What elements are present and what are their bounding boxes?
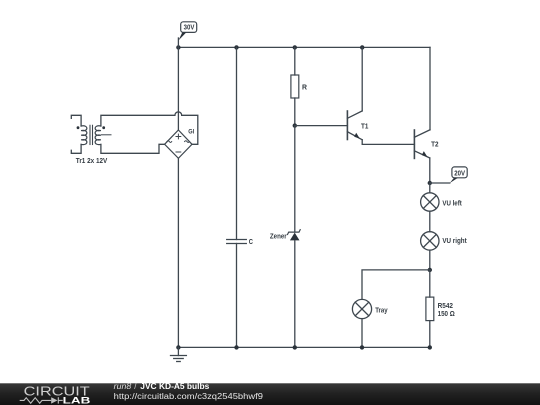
AC tilde left bbox=[167, 141, 172, 143]
wire secondary bottom to bridge AC left bbox=[101, 144, 165, 153]
core bbox=[89, 125, 91, 144]
bridge rectifier Gl bbox=[165, 128, 195, 158]
svg-text:150 Ω: 150 Ω bbox=[438, 311, 456, 318]
svg-text:20V: 20V bbox=[454, 170, 465, 177]
svg-text:T2: T2 bbox=[431, 141, 438, 148]
svg-text:Gl: Gl bbox=[188, 128, 194, 135]
svg-text:R542: R542 bbox=[438, 303, 453, 310]
wire between VU lamps bbox=[429, 211, 431, 232]
wire secondary top to bridge AC right bbox=[101, 112, 198, 144]
wire VU right to branch node bbox=[429, 250, 431, 270]
logo resistor zigzag and diode bbox=[20, 397, 63, 403]
secondary center tap stub bbox=[102, 134, 112, 136]
node 20V junction bbox=[428, 181, 432, 185]
wire T1 base bbox=[295, 125, 348, 127]
svg-text:Tray: Tray bbox=[375, 308, 387, 315]
transistor T2 bbox=[414, 130, 438, 159]
svg-text:Tr1 2x 12V: Tr1 2x 12V bbox=[76, 158, 108, 165]
node zener bottom junction bbox=[293, 345, 297, 349]
wire 30V flag stub bbox=[177, 38, 179, 47]
wire base node to zener bbox=[294, 126, 296, 233]
capacitor C bbox=[227, 239, 253, 246]
primary top terminal bbox=[71, 115, 81, 126]
node R542 bottom junction bbox=[428, 345, 432, 349]
node T1 base junction bbox=[293, 123, 297, 127]
primary bottom terminal bbox=[71, 144, 81, 153]
AC tilde right bbox=[185, 141, 190, 143]
lamp VU left bbox=[421, 193, 463, 211]
wire zener to ground rail bbox=[294, 241, 296, 348]
svg-text:C: C bbox=[249, 239, 253, 246]
lamp VU right bbox=[421, 232, 468, 250]
node C bottom junction bbox=[234, 345, 238, 349]
wire bridge plus to rail bbox=[177, 47, 179, 130]
wire 20V flag stub bbox=[430, 182, 450, 184]
wire C top lead bbox=[236, 47, 238, 239]
primary polarity dot bbox=[77, 126, 80, 129]
wire R top lead bbox=[294, 47, 296, 75]
wire R542 to ground rail bbox=[429, 321, 431, 348]
transformer Tr1 bbox=[71, 115, 111, 165]
net flag 30V bbox=[178, 22, 196, 41]
svg-text:VU left: VU left bbox=[442, 200, 462, 207]
secondary winding bbox=[95, 126, 101, 145]
wire T2 emitter to 20V node bbox=[429, 158, 431, 183]
resistor R542 150 Ohm bbox=[426, 297, 455, 321]
wire top rail 30V bbox=[178, 46, 430, 48]
wire C bottom lead bbox=[236, 244, 238, 348]
node R top junction bbox=[293, 45, 297, 49]
wire ground rail bbox=[178, 346, 430, 348]
ground bbox=[171, 347, 187, 361]
svg-text:run8/JVC KD-A5 bulbs: run8/JVC KD-A5 bulbs bbox=[114, 382, 210, 391]
net flag 20V bbox=[450, 167, 467, 183]
wire node to VU left lamp bbox=[429, 183, 431, 193]
wire Tray to ground rail bbox=[361, 319, 363, 348]
wire T2 collector to rail bbox=[429, 47, 431, 129]
node ground rail left bbox=[176, 345, 180, 349]
node C top junction bbox=[234, 45, 238, 49]
zener diode bbox=[270, 230, 300, 241]
lamp Tray bbox=[352, 299, 387, 318]
resistor R bbox=[291, 75, 307, 98]
svg-text:30V: 30V bbox=[184, 25, 195, 32]
svg-text:T1: T1 bbox=[361, 123, 368, 130]
minus sign bbox=[176, 151, 181, 153]
footer bar bbox=[0, 383, 540, 405]
svg-text:Zener: Zener bbox=[270, 234, 287, 241]
svg-text:LAB: LAB bbox=[63, 395, 91, 405]
svg-text:R: R bbox=[302, 84, 307, 91]
wire branch to Tray lamp bbox=[362, 270, 430, 300]
node branch junction bbox=[428, 268, 432, 272]
wire T1 emitter to T2 base bbox=[362, 140, 414, 145]
svg-text:VU right: VU right bbox=[442, 238, 467, 245]
plus sign bbox=[176, 136, 181, 138]
wire R bottom to base node bbox=[294, 98, 296, 126]
node 30V junction bbox=[176, 45, 180, 49]
node T1 collector junction bbox=[360, 45, 364, 49]
wire bridge minus to ground rail bbox=[177, 158, 179, 347]
node Tray bottom junction bbox=[360, 345, 364, 349]
svg-text:http://circuitlab.com/c3zq2545: http://circuitlab.com/c3zq2545bhwf9 bbox=[114, 392, 264, 401]
wire branch to R542 bbox=[429, 270, 431, 297]
secondary polarity dot bbox=[102, 126, 105, 129]
primary winding bbox=[81, 126, 87, 145]
wire T1 collector to rail bbox=[361, 47, 363, 111]
transistor T1 bbox=[347, 111, 368, 140]
